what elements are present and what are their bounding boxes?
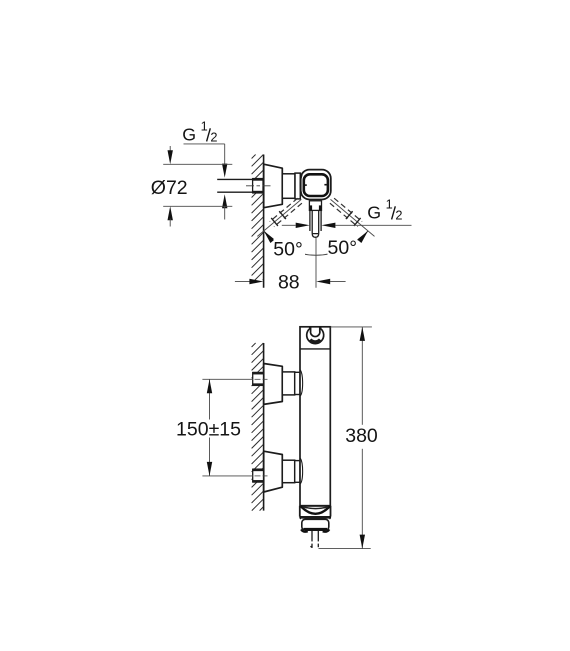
G1/2 upper arrow [222, 164, 227, 178]
G1/2 right arrow toward shaft right [321, 223, 335, 228]
escutcheon cone, top view [264, 164, 283, 208]
outlet feet [301, 529, 329, 531]
svg-text:G: G [182, 125, 196, 145]
svg-text:G: G [367, 203, 381, 223]
dia72 arrow bottom [168, 206, 173, 226]
lever swung left centreline [257, 199, 301, 236]
ring before handle [295, 173, 300, 199]
connector cylinder lower [282, 460, 294, 483]
label 380 [345, 425, 378, 447]
swing arc [264, 231, 368, 255]
dim380 extension top [330, 326, 372, 328]
outlet knob [302, 519, 329, 530]
collar piece upper [295, 372, 300, 394]
supply pipe centreline [246, 185, 272, 187]
svg-text:88: 88 [278, 271, 300, 293]
G1/2 right leader [282, 224, 412, 226]
joint bulge lower [300, 458, 302, 484]
dim150 extension top [202, 378, 253, 380]
lever swung left dashed sides [270, 198, 302, 227]
lever collar [309, 201, 321, 211]
wall line, top view [263, 155, 265, 288]
lever swung right centreline [331, 199, 375, 236]
handle grip side curve [300, 175, 302, 196]
label G1/2 top left [182, 118, 217, 144]
outlet rim [300, 505, 331, 507]
lever swung left collar marks [271, 211, 286, 226]
dim150 arrow up [207, 379, 212, 393]
lever axis extension line [315, 238, 317, 288]
label G1/2 right [367, 197, 402, 223]
handle face tick marks [304, 184, 326, 186]
dim380 extension bottom [319, 548, 371, 550]
dimension 88 line left [235, 281, 250, 283]
body cap line [300, 348, 330, 350]
supply pipe G1/2 [217, 179, 252, 192]
dim150 line [209, 379, 211, 476]
label 50 deg left [273, 239, 305, 261]
handle inner face [304, 174, 328, 196]
swing arc arrowhead left [264, 231, 275, 243]
label 50 deg right [328, 237, 359, 259]
dim150 extension bottom [202, 475, 253, 477]
union nut upper [252, 372, 263, 386]
svg-text:2: 2 [395, 207, 402, 222]
outlet pipe stub [311, 530, 319, 547]
wall hatching, top view [252, 155, 264, 281]
svg-text:50°: 50° [273, 239, 303, 261]
connector cylinder upper [282, 372, 294, 395]
G1/2 lower arrow [222, 194, 227, 219]
svg-text:380: 380 [345, 425, 378, 447]
collar piece lower [295, 461, 300, 483]
svg-text:150±15: 150±15 [176, 419, 241, 441]
label dia72 [151, 177, 188, 199]
mixer body [300, 327, 330, 506]
centreline upper connection [255, 378, 268, 380]
swing arc arrowhead right [357, 231, 368, 243]
G1/2 top leader [184, 144, 225, 165]
svg-text:50°: 50° [328, 237, 358, 259]
joint bulge upper [300, 370, 302, 396]
wall hatching, front view [252, 343, 264, 511]
lever shaft [310, 210, 321, 237]
svg-text:2: 2 [210, 129, 217, 144]
outlet cup dome [301, 506, 330, 514]
dim380 arrow up [360, 327, 365, 341]
svg-text:Ø72: Ø72 [151, 177, 188, 199]
union nut lower [252, 469, 263, 483]
escutcheon cone lower [264, 451, 283, 492]
dimension 88 arrow left [249, 279, 263, 284]
dim380 line [361, 327, 363, 549]
dimension 88 line right [330, 281, 346, 283]
dia72 arrow top [168, 146, 173, 164]
svg-text:1: 1 [386, 197, 393, 212]
threaded nut at wall, top view [252, 178, 263, 193]
centreline lower connection [255, 475, 268, 477]
lever swung right dashed sides [330, 198, 362, 227]
dia72 extension top [163, 163, 232, 165]
lever swung right collar marks [346, 211, 361, 226]
dimension 88 arrow right [316, 279, 330, 284]
outlet cup sides [300, 506, 331, 517]
G1/2 right arrow toward shaft left [296, 223, 310, 228]
escutcheon cone upper [264, 364, 283, 405]
dim150 arrow down [207, 462, 212, 476]
label 150+-15 [176, 419, 241, 441]
handle outer shell [301, 170, 331, 200]
dim380 arrow down [360, 535, 365, 549]
outlet waist band [300, 516, 330, 519]
svg-text:1: 1 [201, 118, 208, 133]
valve body, top view [282, 174, 295, 199]
wall line, front view [263, 343, 265, 511]
dia72 extension bottom [163, 205, 232, 207]
label 88 [278, 271, 300, 293]
hose hook [307, 327, 324, 344]
